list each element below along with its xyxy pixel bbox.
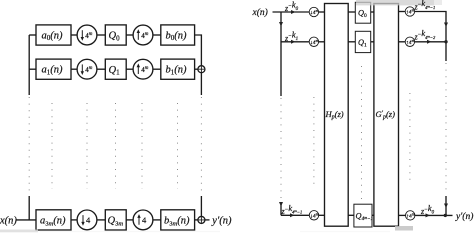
svg-text:x(n): x(n) bbox=[252, 7, 268, 18]
wire Hp to Qlast bbox=[348, 214, 354, 216]
svg-text:Q4m−1: Q4m−1 bbox=[356, 212, 374, 223]
dots right diagram collect bbox=[445, 63, 447, 194]
wire collect bottom segment bbox=[445, 196, 447, 215]
wire to Q3m bbox=[97, 219, 105, 221]
svg-text:Q0: Q0 bbox=[358, 8, 367, 18]
downsampler circle bottom bbox=[77, 210, 97, 230]
downsampler circle bottom bbox=[309, 211, 318, 220]
arrow down on collect line bbox=[444, 23, 448, 28]
wire to Q0 bbox=[97, 34, 105, 36]
wire G to up circle bottom bbox=[399, 214, 406, 216]
upsampler circle row1 bbox=[133, 25, 153, 45]
block b1(n) bbox=[161, 59, 195, 79]
wire: x(n) input bottom row bbox=[16, 219, 37, 221]
dots right diagram up circles bbox=[409, 93, 411, 182]
dots collect line bbox=[200, 97, 202, 196]
svg-text:a1(n): a1(n) bbox=[42, 65, 63, 77]
svg-text:4: 4 bbox=[142, 215, 147, 225]
arrow right bottom bbox=[426, 213, 431, 217]
block Q1 small bbox=[355, 31, 370, 52]
wire circle to Hp bottom bbox=[319, 214, 325, 216]
svg-text:Q0: Q0 bbox=[109, 31, 121, 43]
grey band top right bbox=[356, 0, 434, 5]
svg-text:a3m(n): a3m(n) bbox=[40, 215, 66, 227]
block a3m(n) bbox=[36, 210, 71, 230]
dots right diagram down circles bbox=[313, 97, 315, 187]
wire to Q1 bbox=[97, 68, 105, 70]
block a1(n) bbox=[36, 59, 71, 79]
svg-text:a0(n): a0(n) bbox=[42, 30, 63, 42]
wire circle r1 to collect junction bbox=[415, 41, 446, 43]
wire Q3m to up circle bbox=[126, 219, 133, 221]
wire to b0 bbox=[153, 34, 161, 36]
arrow right row0 bbox=[291, 10, 296, 14]
wire b1 to adder bbox=[195, 68, 198, 70]
upsampler circle bottom bbox=[133, 210, 153, 230]
dots Q column bbox=[115, 103, 117, 189]
wire Q0 to up circle bbox=[126, 34, 133, 36]
wire: feed vertical line bbox=[280, 12, 282, 96]
arrow down collect bottom bbox=[444, 204, 448, 209]
junction dot bottom bbox=[444, 214, 447, 217]
wire G to up circle r0 bbox=[399, 11, 406, 13]
svg-text:4m: 4m bbox=[141, 32, 149, 40]
wire: collect line below row2 adder bbox=[200, 73, 202, 95]
adder bottom bbox=[198, 216, 205, 223]
wire: feed bottom to circle bbox=[281, 214, 309, 216]
dots feed line bbox=[28, 97, 30, 196]
svg-text:y′(n): y′(n) bbox=[455, 211, 473, 222]
arrow down on feed line bbox=[279, 22, 283, 27]
glyph down-arrow bottom left circle bbox=[82, 215, 84, 223]
wire b0 to collect line corner bbox=[195, 35, 202, 66]
right diagram labels bbox=[252, 7, 474, 222]
block Q0 bbox=[105, 25, 126, 45]
arrow right bottom-left bbox=[290, 213, 295, 217]
svg-text:y′(n): y′(n) bbox=[211, 216, 232, 227]
dots right diagram Q column bbox=[361, 66, 363, 199]
upsampler circle row2 bbox=[133, 59, 153, 79]
downsampler circle r1 bbox=[309, 37, 318, 46]
wire circle r0 to collect corner bbox=[415, 12, 446, 62]
svg-text:z−k0: z−k0 bbox=[420, 203, 435, 216]
block G'p(z) bbox=[374, 4, 399, 227]
junction dot r1 bbox=[444, 40, 447, 43]
svg-text:Q1: Q1 bbox=[358, 38, 367, 49]
svg-text:b0(n): b0(n) bbox=[166, 30, 187, 42]
glyph down-arrow row1 left circle bbox=[81, 30, 83, 38]
wire circle to y'(n) bbox=[415, 214, 453, 216]
svg-text:z−k4m−1: z−k4m−1 bbox=[281, 203, 303, 216]
svg-text:Hp(z): Hp(z) bbox=[325, 109, 344, 121]
block Q1 bbox=[105, 59, 126, 79]
wire a1 to down circle bbox=[71, 68, 77, 70]
wire adder to y'(n) bbox=[205, 219, 210, 221]
wire a3m to down circle bbox=[71, 219, 77, 221]
wire a0 to down circle bbox=[71, 34, 77, 36]
wire: row2 input bbox=[29, 68, 36, 70]
wire: collect line above bottom adder bbox=[200, 196, 202, 216]
downsampler circle row2 bbox=[77, 59, 97, 79]
block Q3m bbox=[105, 210, 126, 230]
svg-text:4m: 4m bbox=[85, 32, 93, 40]
downsampler circle row1 bbox=[77, 25, 97, 45]
block b0(n) bbox=[161, 25, 195, 45]
arrow right r1 bbox=[427, 40, 432, 44]
svg-text:4: 4 bbox=[86, 215, 91, 225]
wire Qlast to G bbox=[372, 214, 374, 216]
downsampler circle r0 bbox=[309, 7, 318, 16]
arrow down on feed line bottom bbox=[279, 202, 283, 207]
grey streak bottom far right bbox=[300, 231, 390, 232]
wire: row1 input bbox=[29, 34, 36, 36]
grey streak bottom left bbox=[0, 230, 38, 233]
glyph up-arrow row2 circle bbox=[137, 66, 139, 74]
dots right diagram feed bbox=[280, 98, 282, 202]
svg-text:G′p(z): G′p(z) bbox=[376, 109, 396, 121]
wire Q0 to G bbox=[371, 11, 374, 13]
wire: input feed vertical line (left) bbox=[28, 35, 30, 95]
glyph up-arrow row1 circle bbox=[137, 32, 139, 40]
svg-text:Q1: Q1 bbox=[109, 65, 121, 77]
dots a column bbox=[51, 103, 53, 189]
block Hp(z) bbox=[325, 4, 349, 227]
svg-text:z−k4m−2: z−k4m−2 bbox=[414, 28, 436, 41]
block b3m(n) bbox=[161, 210, 195, 230]
svg-text:b3m(n): b3m(n) bbox=[164, 215, 190, 227]
grey blob bottom right bbox=[395, 226, 413, 231]
dots up circle column bbox=[141, 103, 143, 189]
wire: feed branch row1 bbox=[281, 41, 309, 43]
upsampler circle r0 bbox=[405, 7, 414, 16]
wire circle r1 to Hp bbox=[319, 41, 325, 43]
wire b3m to bottom adder bbox=[195, 219, 198, 221]
wire circle r0 to Hp bbox=[319, 11, 325, 13]
wire to b3m bbox=[153, 219, 161, 221]
wire Hp to Q0 bbox=[348, 11, 355, 13]
svg-text:4m: 4m bbox=[141, 66, 149, 74]
wire to b1 bbox=[153, 68, 161, 70]
glyph up-arrow bottom circle bbox=[138, 217, 140, 225]
block a0(n) bbox=[36, 25, 71, 45]
upsampler circle r1 bbox=[405, 37, 414, 46]
glyph down-arrow row2 left circle bbox=[81, 64, 83, 72]
wire Q1 to G bbox=[371, 41, 374, 43]
wire: x(n) to first circle bbox=[273, 11, 310, 13]
arrow right row1 bbox=[291, 40, 296, 44]
block Q0 small bbox=[355, 2, 370, 23]
upsampler circle bottom bbox=[406, 211, 415, 220]
wire Hp to Q1 bbox=[348, 41, 355, 43]
dots down circle column bbox=[86, 103, 88, 189]
svg-text:4m: 4m bbox=[85, 66, 93, 74]
block Q4m-1 small bbox=[354, 204, 372, 227]
grey streak bottom middle bbox=[40, 231, 220, 232]
adder row2 bbox=[198, 66, 205, 73]
svg-text:b1(n): b1(n) bbox=[166, 65, 187, 77]
svg-text:x(n): x(n) bbox=[0, 216, 17, 227]
wire Q1 to up circle bbox=[126, 68, 133, 70]
svg-text:Q3m: Q3m bbox=[108, 216, 124, 228]
dots b column bbox=[177, 103, 179, 189]
wire G to up circle r1 bbox=[399, 41, 406, 43]
